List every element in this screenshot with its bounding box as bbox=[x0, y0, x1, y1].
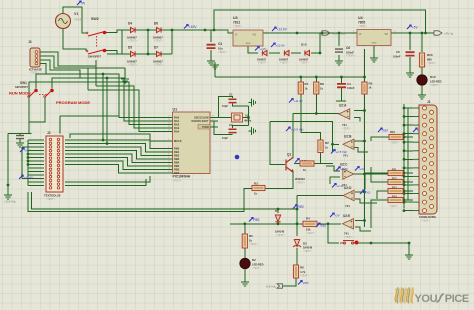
wire C6 top stub bbox=[338, 33, 340, 46]
svg-text:D19: D19 bbox=[430, 75, 436, 79]
svg-text:<TEXT>: <TEXT> bbox=[389, 205, 399, 208]
junction node (404,150.8) bbox=[403, 149, 406, 152]
svg-text:RB1: RB1 bbox=[254, 218, 260, 222]
resistor R20 bbox=[419, 53, 424, 67]
wire Q1 collector riser bbox=[292, 114, 294, 159]
svg-text:R10: R10 bbox=[390, 130, 395, 134]
wire D9-D10 bbox=[291, 52, 301, 54]
svg-text:15pF: 15pF bbox=[222, 136, 228, 140]
svg-text:741: 741 bbox=[345, 204, 350, 208]
resistor R6 bbox=[293, 265, 298, 278]
svg-text:SW-DPDT: SW-DPDT bbox=[15, 85, 28, 89]
svg-text:D5: D5 bbox=[128, 46, 132, 50]
junction drop A top bbox=[102, 73, 105, 76]
wire J2 left pin row 8 bbox=[28, 164, 44, 166]
svg-text:VI: VI bbox=[359, 33, 362, 36]
svg-text:PICE: PICE bbox=[445, 293, 469, 305]
diode D3 zener bbox=[293, 240, 301, 248]
net label +18V bbox=[184, 25, 197, 30]
wire D2 to ground bbox=[244, 269, 246, 279]
wire D19 to ground bbox=[421, 85, 423, 92]
junction node (339,33) bbox=[338, 32, 341, 35]
wire J2 to RB3 bbox=[65, 151, 167, 160]
svg-text:1k: 1k bbox=[320, 87, 323, 91]
svg-text:RB0: RB0 bbox=[174, 147, 180, 151]
junction node (205,30) bbox=[204, 29, 207, 32]
svg-text:1k: 1k bbox=[325, 146, 328, 150]
svg-text:U2:B: U2:B bbox=[344, 135, 352, 139]
wire V1 bottom to SW2 pole2 bbox=[63, 29, 86, 51]
svg-text:D2: D2 bbox=[252, 258, 256, 262]
wire tall bus drop A bbox=[102, 74, 104, 140]
transistor Q1 bbox=[286, 158, 293, 173]
svg-text:+13.6V: +13.6V bbox=[277, 28, 288, 32]
svg-text:<TEXT>: <TEXT> bbox=[233, 25, 243, 28]
junction drop B top bbox=[106, 77, 109, 80]
svg-text:C8: C8 bbox=[396, 50, 400, 54]
ground D2 bbox=[241, 279, 249, 286]
svg-text:<TEXT>: <TEXT> bbox=[342, 128, 352, 131]
svg-text:1k: 1k bbox=[369, 86, 372, 90]
svg-text:+13.6 Vdc: +13.6 Vdc bbox=[4, 200, 16, 204]
switch SW1 bbox=[29, 92, 51, 98]
wire to R12 bbox=[371, 167, 388, 182]
svg-text:+2.2V: +2.2V bbox=[337, 184, 346, 188]
svg-text:<TEXT>: <TEXT> bbox=[154, 40, 164, 43]
svg-text:V1: V1 bbox=[74, 12, 78, 16]
svg-text:<TEXT>: <TEXT> bbox=[218, 51, 228, 54]
blue junction marker bbox=[235, 155, 240, 160]
svg-text:RUN MODE: RUN MODE bbox=[9, 91, 31, 96]
junction R5 tap bbox=[243, 222, 246, 225]
svg-text:LED-RED: LED-RED bbox=[252, 263, 264, 267]
resistor R4 bbox=[303, 221, 317, 226]
ground C6 bbox=[335, 58, 343, 65]
wire bridge vertical B bbox=[171, 30, 173, 54]
svg-text:<TEXT>: <TEXT> bbox=[252, 267, 262, 270]
wire SW1 poles down bbox=[29, 97, 45, 134]
svg-text:U1: U1 bbox=[173, 108, 178, 112]
wire bus DB25 A bbox=[403, 104, 405, 209]
ground D19 bbox=[418, 92, 426, 99]
junction node (404,184.9) bbox=[403, 184, 406, 187]
wire R9 drop vertical bbox=[364, 94, 366, 227]
svg-text:C3: C3 bbox=[218, 42, 222, 46]
diode D10 bbox=[305, 50, 310, 55]
svg-text:VPP: VPP bbox=[303, 281, 309, 285]
wire J2 left pin row 3 bbox=[28, 146, 44, 148]
junction D1 bottom bbox=[277, 222, 280, 225]
svg-text:<TEXT>: <TEXT> bbox=[390, 142, 400, 145]
op-amp U2:B bbox=[343, 139, 354, 149]
ground C1 bbox=[249, 99, 256, 107]
svg-text:SW2: SW2 bbox=[91, 17, 99, 21]
svg-text:R2: R2 bbox=[325, 141, 329, 145]
wire D10 to rail bbox=[311, 33, 320, 53]
wire bus RA3 bbox=[96, 60, 167, 128]
diode D5 bbox=[131, 51, 136, 56]
svg-text:TEXTOOL28: TEXTOOL28 bbox=[44, 194, 61, 198]
input port VPP bbox=[277, 284, 283, 288]
resistor R7 bbox=[298, 82, 303, 94]
svg-text:VSINE: VSINE bbox=[74, 18, 83, 22]
wire C3 bottom stub bbox=[210, 50, 212, 58]
svg-text:1N4007: 1N4007 bbox=[279, 58, 289, 62]
resistor R17 bbox=[300, 161, 314, 166]
svg-text:PROGRAM MODE: PROGRAM MODE bbox=[56, 100, 90, 105]
wire D3 to R6 bbox=[296, 248, 298, 265]
wire U4 gnd stub bbox=[373, 46, 375, 56]
ground U4 bbox=[370, 55, 378, 62]
wire OSC1 to X1 bbox=[210, 117, 232, 119]
LED D2 bbox=[240, 258, 250, 268]
svg-text:R11: R11 bbox=[392, 169, 397, 172]
svg-text:4MHz: 4MHz bbox=[244, 119, 252, 123]
wire J2 left pin row 4 bbox=[28, 150, 44, 152]
wire R7 top stub bbox=[300, 77, 302, 82]
wire to R14 bbox=[371, 200, 388, 228]
net label IN bbox=[77, 1, 85, 6]
wire R8 down to A-out run bbox=[315, 94, 317, 114]
wire bus stub row 9 bbox=[404, 175, 413, 177]
capacitor C8 bbox=[406, 52, 415, 55]
svg-text:100nF: 100nF bbox=[347, 86, 355, 90]
svg-text:+12.4V: +12.4V bbox=[276, 44, 286, 48]
svg-text:D3: D3 bbox=[303, 242, 307, 246]
svg-text:<TEXT>: <TEXT> bbox=[346, 55, 356, 58]
capacitor C3 bbox=[207, 45, 216, 48]
svg-text:1k: 1k bbox=[305, 87, 308, 91]
diode D7 bbox=[157, 51, 162, 56]
junction node (404,167.9) bbox=[403, 167, 406, 170]
svg-text:U2:C: U2:C bbox=[340, 163, 348, 167]
junction drop B bottom bbox=[106, 142, 109, 145]
svg-text:U2:D: U2:D bbox=[344, 186, 352, 190]
wire J2 left pin row 10 bbox=[28, 171, 44, 173]
wire J3 pin1 bbox=[40, 52, 96, 66]
ground C2 bbox=[249, 127, 256, 135]
junction node (316.3,77) bbox=[315, 76, 318, 79]
diode D6 bbox=[157, 27, 162, 32]
junction drop A bottom bbox=[102, 139, 105, 142]
svg-text:1k: 1k bbox=[254, 192, 257, 196]
svg-text:R9: R9 bbox=[369, 82, 373, 86]
IC U1 PIC16F84A bbox=[173, 112, 211, 174]
capacitor C2 bbox=[229, 129, 237, 132]
wire C10 stub bbox=[19, 139, 21, 140]
wire J2 top left bbox=[8, 134, 32, 136]
wire D8-D9 bbox=[269, 52, 280, 54]
wire X1 out bbox=[243, 117, 249, 119]
junction node (148,30) bbox=[147, 29, 150, 32]
svg-text:RB6: RB6 bbox=[174, 168, 180, 172]
svg-text:TXD: TXD bbox=[365, 191, 371, 195]
wire C2 top bbox=[233, 126, 249, 129]
resistor R3 bbox=[252, 185, 265, 190]
svg-text:<TEXT>: <TEXT> bbox=[128, 40, 138, 43]
junction node (410,33) bbox=[409, 32, 412, 35]
push button bbox=[340, 241, 357, 245]
svg-text:+13V: +13V bbox=[260, 47, 268, 51]
wire to ground right bbox=[408, 243, 410, 252]
svg-text:RB4: RB4 bbox=[174, 161, 180, 165]
resistor R13 bbox=[388, 188, 403, 193]
svg-text:<TEXT>: <TEXT> bbox=[303, 250, 313, 253]
junction node (404,193.5) bbox=[403, 192, 406, 195]
svg-text:RB1: RB1 bbox=[174, 150, 180, 154]
junction node (404,202.1) bbox=[403, 201, 406, 204]
svg-text:<TEXT>: <TEXT> bbox=[296, 182, 306, 185]
svg-text:RA1: RA1 bbox=[174, 119, 180, 123]
wire U2D out down to D3 bbox=[296, 196, 298, 237]
svg-text:+5V: +5V bbox=[412, 26, 419, 30]
resistor R14 bbox=[388, 197, 403, 202]
svg-text:<TEXT>: <TEXT> bbox=[300, 62, 309, 65]
svg-text:D7: D7 bbox=[154, 46, 158, 50]
pin T0CKI highlight bbox=[198, 125, 210, 130]
wire SW2 out2 bridge bottom rail bbox=[106, 51, 172, 55]
svg-text:C1: C1 bbox=[229, 93, 233, 97]
wire R3 to Q1 emitter bbox=[265, 171, 293, 189]
svg-text:PIC16F84A: PIC16F84A bbox=[173, 175, 191, 179]
junction X1 node bbox=[247, 116, 250, 119]
ground mid bbox=[211, 62, 219, 69]
resistor R2 bbox=[318, 140, 323, 153]
wire bus stub row 4 bbox=[404, 133, 413, 135]
svg-text:<TEXT>: <TEXT> bbox=[258, 62, 267, 65]
junction in D bbox=[363, 191, 366, 194]
svg-text:GND: GND bbox=[372, 43, 377, 45]
svg-text:741: 741 bbox=[344, 232, 349, 236]
svg-text:741: 741 bbox=[343, 154, 348, 158]
wire C6 bottom stub bbox=[338, 55, 340, 58]
svg-text:<TEXT>: <TEXT> bbox=[300, 275, 310, 278]
diode D9 bbox=[284, 50, 289, 55]
wire J2 bottom pins bbox=[65, 176, 150, 186]
svg-text:100nF: 100nF bbox=[393, 55, 401, 59]
wire top power link bbox=[214, 10, 426, 33]
wire SW2 out1 to bridge top rail to U3 in bbox=[106, 30, 233, 33]
wire rail stub mid bbox=[214, 62, 216, 77]
junction in E bbox=[363, 219, 366, 222]
wire bus stub row 2 bbox=[404, 116, 413, 118]
svg-text:<TEXT>: <TEXT> bbox=[128, 64, 138, 67]
capacitor C4 bbox=[337, 84, 346, 87]
capacitor C10 bbox=[16, 136, 24, 139]
junction node (28,157.5) bbox=[27, 156, 30, 159]
svg-text:4.7k: 4.7k bbox=[300, 270, 306, 274]
junction top link left bbox=[213, 29, 216, 32]
junction resistor feed bbox=[403, 181, 406, 184]
wire J2 left pin row 14 bbox=[28, 185, 44, 187]
wire U2B in2 feed bbox=[354, 148, 368, 153]
svg-text:680: 680 bbox=[427, 58, 432, 62]
resistor R12 bbox=[388, 179, 403, 184]
junction resistor feed bbox=[403, 190, 406, 193]
wire left bus A bbox=[7, 134, 9, 193]
wire tall bus drop B bbox=[106, 78, 108, 144]
wire +5V distribution rail bbox=[215, 76, 365, 78]
svg-text:R6: R6 bbox=[300, 266, 304, 270]
wire J2 left pin row 7 bbox=[28, 160, 44, 162]
wire RB1 run bbox=[230, 223, 303, 225]
regulator U4 7805 bbox=[357, 30, 391, 46]
wire C8 bottom stub bbox=[409, 57, 411, 70]
svg-text:7805: 7805 bbox=[358, 21, 365, 25]
svg-text:<TEXT>: <TEXT> bbox=[154, 64, 164, 67]
wire bus RA1 bbox=[52, 78, 167, 121]
resistor R8 bbox=[314, 82, 319, 94]
wire J2 left pin row 11 bbox=[28, 174, 44, 176]
wire U2B in1 feed bbox=[354, 140, 365, 142]
resistor R9 bbox=[362, 82, 367, 94]
wire R17 to U2C in bbox=[314, 163, 333, 165]
svg-text:T0CKI: T0CKI bbox=[202, 126, 209, 129]
svg-text:+11.4V: +11.4V bbox=[294, 99, 304, 103]
wire R2 bottom to R17 bbox=[314, 153, 321, 164]
wire J2 to RB5 bbox=[65, 158, 167, 167]
svg-text:J3: J3 bbox=[28, 40, 32, 44]
ground left bus bbox=[4, 192, 12, 199]
svg-text:<TEXT>: <TEXT> bbox=[46, 198, 56, 201]
wire R10 to J1 bbox=[403, 136, 413, 138]
wire V1 top to SW2 pole1 bbox=[63, 7, 86, 33]
junction node (322,33) bbox=[321, 32, 324, 35]
wire R8 top stub bbox=[315, 77, 317, 82]
wire long run to R3 bbox=[28, 188, 252, 211]
junction node (28,161) bbox=[27, 160, 30, 163]
svg-text:2N2222: 2N2222 bbox=[295, 177, 305, 181]
svg-text:C6: C6 bbox=[346, 46, 350, 50]
wire R5 to D2 bbox=[244, 248, 246, 258]
ground C10 bbox=[16, 140, 24, 147]
wire J3 pin2 bbox=[40, 56, 125, 68]
junction D1 top bbox=[277, 208, 280, 211]
junction resistor feed bbox=[403, 136, 406, 139]
wire U3B inputs bbox=[355, 221, 371, 232]
wire J2 left pin row 12 bbox=[28, 178, 44, 180]
svg-text:VI: VI bbox=[235, 34, 238, 37]
resistor R11 bbox=[388, 170, 403, 175]
svg-text:<TEXT>: <TEXT> bbox=[430, 84, 440, 87]
wire bus RA0 bbox=[36, 74, 167, 118]
svg-text:RA4: RA4 bbox=[174, 130, 180, 134]
junction resistor feed bbox=[403, 172, 406, 175]
wire J3 pin4 bbox=[40, 64, 46, 75]
wire R17 left stub bbox=[294, 163, 300, 165]
wire J2 left pin row 2 bbox=[28, 143, 44, 145]
svg-text:10k: 10k bbox=[306, 228, 311, 232]
junction node (8,185) bbox=[7, 184, 10, 187]
wire run to U2B apex bbox=[270, 122, 339, 145]
connector J2 TEXTOOL28 bbox=[46, 136, 63, 192]
wire C1 top feed bbox=[219, 97, 233, 118]
junction R8 drop bbox=[315, 112, 318, 115]
svg-text:J1: J1 bbox=[427, 100, 431, 104]
svg-text:R20: R20 bbox=[427, 53, 433, 57]
junction in1 bbox=[363, 109, 366, 112]
watermark YOUSPICE logo bbox=[395, 287, 413, 303]
diode D1 bbox=[275, 215, 280, 222]
wire U2A output run bbox=[293, 113, 339, 115]
junction top link right bbox=[424, 32, 427, 35]
junction C out bbox=[363, 173, 366, 176]
wire bus stub row 6 bbox=[404, 150, 413, 152]
net label +13.6V bbox=[272, 27, 288, 32]
svg-text:GND: GND bbox=[246, 43, 251, 45]
wire bus stub row 7 bbox=[404, 158, 413, 160]
junction node (422,33) bbox=[421, 32, 424, 35]
wire left bus B bbox=[27, 140, 29, 186]
junction node (364.5,77) bbox=[363, 76, 366, 79]
diode D8 bbox=[262, 50, 267, 55]
connector J3 bbox=[30, 48, 40, 67]
svg-text:R7: R7 bbox=[305, 82, 309, 86]
svg-text:VO: VO bbox=[385, 33, 389, 36]
svg-text:<TEXT>: <TEXT> bbox=[249, 243, 259, 246]
junction node (404,125.1) bbox=[403, 124, 406, 127]
wire R20 to D19 bbox=[421, 67, 423, 75]
wire R12 to J1 bbox=[403, 181, 413, 183]
wire U4 out rail bbox=[391, 32, 434, 34]
svg-text:C4: C4 bbox=[347, 82, 351, 86]
capacitor C1 bbox=[229, 99, 237, 102]
wire bus RA2 bbox=[29, 82, 167, 125]
svg-text:7812: 7812 bbox=[233, 21, 240, 25]
svg-text:+2.5V: +2.5V bbox=[341, 167, 350, 171]
wire R6 to VPP port bbox=[283, 278, 296, 286]
junction diode chain bbox=[319, 52, 322, 55]
svg-text:+13.6V: +13.6V bbox=[24, 176, 35, 180]
junction D3 bbox=[296, 222, 299, 225]
svg-text:RA0: RA0 bbox=[174, 116, 180, 120]
junction node (404,108.0) bbox=[403, 107, 406, 110]
svg-text:RB0: RB0 bbox=[298, 205, 304, 209]
watermark YOUSPICE text bbox=[415, 293, 469, 305]
junction node (404,133.7) bbox=[403, 132, 406, 135]
junction node (404,116.5) bbox=[403, 115, 406, 118]
wire D1 top stub bbox=[277, 209, 279, 213]
junction node (404,176.4) bbox=[403, 175, 406, 178]
wire U2C out to R11 bbox=[353, 173, 389, 175]
connector J1 CONN-D25M bbox=[413, 105, 437, 214]
wire to R11 bbox=[365, 173, 388, 190]
wire J2 left pin row 1 bbox=[28, 139, 44, 141]
junction U2B apex bbox=[331, 143, 334, 146]
wire J3 pin3 bbox=[40, 60, 80, 78]
wire bridge vertical A bbox=[147, 30, 149, 54]
ground C8 bbox=[406, 70, 414, 77]
junction node (297,33) bbox=[296, 32, 299, 35]
svg-text:-8.6 Vdc: -8.6 Vdc bbox=[266, 285, 277, 289]
wire MCLR bbox=[70, 134, 167, 141]
wire D1 bottom stub bbox=[277, 222, 279, 225]
svg-text:LED-RED: LED-RED bbox=[430, 80, 442, 84]
wire U2A in2 feed bbox=[354, 118, 360, 122]
junction node (148,54) bbox=[147, 53, 150, 56]
output port +5V bbox=[434, 31, 442, 35]
svg-text:1N4007: 1N4007 bbox=[257, 58, 267, 62]
wire C3 top stub bbox=[210, 30, 212, 42]
wire J2 left pin row 9 bbox=[28, 167, 44, 169]
svg-text:R3: R3 bbox=[254, 182, 258, 186]
svg-text:<TEXT>: <TEXT> bbox=[344, 236, 354, 239]
wire J2 left pin row 13 bbox=[28, 181, 44, 183]
svg-text:VO: VO bbox=[253, 34, 257, 37]
wire R13 to J1 bbox=[403, 190, 413, 192]
wire bus stub row 3 bbox=[404, 124, 413, 126]
wire bus stub row 10 bbox=[404, 184, 413, 186]
